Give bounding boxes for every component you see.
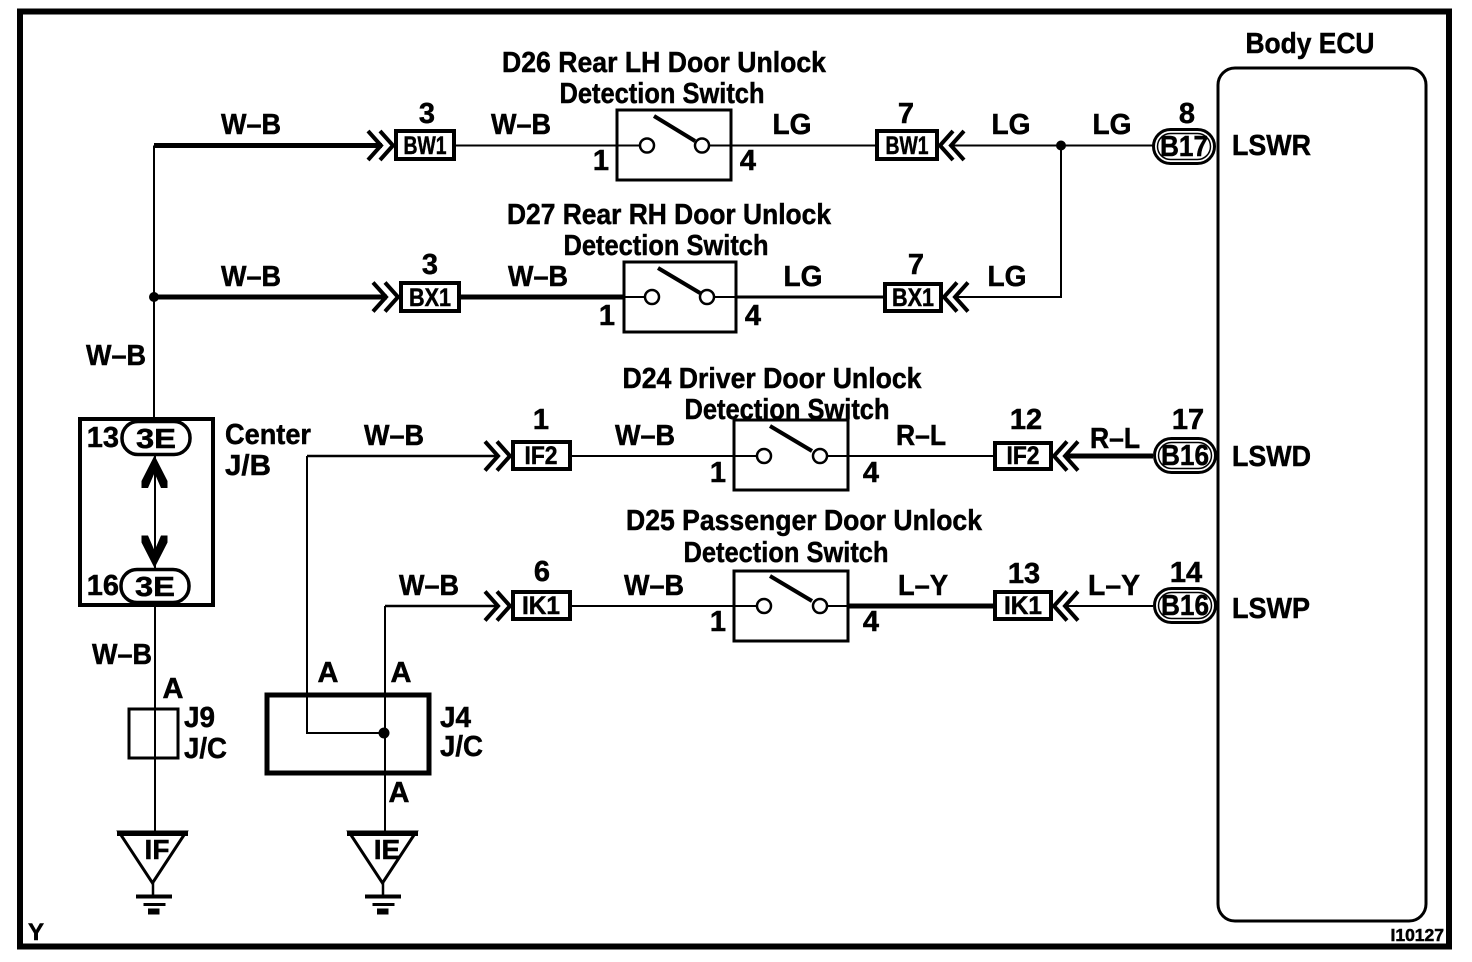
wire row3 R-L thin [848, 455, 993, 457]
svg-text:4: 4 [863, 606, 879, 638]
wire row4 L-Y bold [848, 604, 993, 609]
node junction row1 [1056, 141, 1066, 151]
svg-text:D24 Driver Door Unlock: D24 Driver Door Unlock [623, 363, 923, 395]
arrow chevrons out of IK1 right [1054, 592, 1078, 621]
junction connector J4 J/C [267, 695, 429, 773]
connector 3E top [122, 422, 190, 455]
wire row2 LG medium [736, 296, 883, 299]
connector B16 row3 [1155, 439, 1216, 473]
svg-text:W–B: W–B [624, 570, 684, 602]
arrow chevrons into IK1 [485, 592, 510, 621]
node junction row2 left [149, 292, 159, 302]
wire row2 W-B bold mid [461, 295, 624, 300]
connector BW1 left [396, 131, 454, 160]
svg-text:BX1: BX1 [892, 284, 934, 312]
svg-text:13: 13 [87, 422, 119, 454]
svg-text:I10127: I10127 [1390, 925, 1444, 945]
svg-text:J/C: J/C [184, 733, 227, 765]
connector IK1 right [995, 592, 1051, 620]
svg-text:LG: LG [988, 261, 1027, 293]
svg-text:LG: LG [1093, 109, 1132, 141]
wire trunk left vertical [153, 146, 155, 420]
arrow chevrons out of BW1 right [940, 131, 964, 160]
wire row3 W-B [307, 455, 499, 458]
svg-text:J/C: J/C [440, 731, 483, 763]
svg-text:W–B: W–B [92, 639, 152, 671]
svg-text:W–B: W–B [221, 109, 281, 141]
svg-text:3: 3 [422, 249, 438, 281]
arrow chevrons out of BX1 right [944, 283, 968, 312]
junction block Center J/B [80, 419, 213, 605]
arrow chevrons into IF2 [485, 442, 510, 471]
svg-text:LSWP: LSWP [1232, 593, 1310, 625]
svg-text:BW1: BW1 [886, 132, 929, 160]
svg-text:1: 1 [710, 457, 726, 489]
svg-text:Detection Switch: Detection Switch [560, 78, 765, 110]
svg-text:LSWR: LSWR [1232, 130, 1311, 162]
arrow chevrons out of IF2 right [1054, 442, 1078, 471]
svg-text:4: 4 [863, 457, 879, 489]
svg-text:A: A [318, 657, 339, 689]
svg-text:BX1: BX1 [409, 284, 451, 312]
svg-text:LG: LG [992, 109, 1031, 141]
wire row3 drop from corner [307, 456, 384, 733]
svg-text:12: 12 [1010, 404, 1042, 436]
wire row1 LG thin [731, 145, 875, 147]
svg-text:14: 14 [1170, 557, 1202, 589]
wire row2 W-B bold [154, 295, 387, 300]
wire row4 L-Y thin [1066, 605, 1153, 607]
svg-text:A: A [391, 657, 412, 689]
wire trunk below J/B [154, 605, 156, 832]
connector IK1 left [513, 592, 570, 620]
svg-text:Body ECU: Body ECU [1246, 28, 1375, 60]
node junction J4 [379, 728, 390, 739]
svg-text:IK1: IK1 [522, 592, 560, 620]
arrow chevrons into BW1 [368, 131, 393, 160]
svg-text:4: 4 [740, 145, 756, 177]
switch D24 [734, 420, 848, 490]
connector BX1 right [885, 284, 941, 312]
svg-text:1: 1 [533, 404, 549, 436]
svg-text:D27 Rear RH Door Unlock: D27 Rear RH Door Unlock [507, 199, 832, 231]
svg-text:Detection Switch: Detection Switch [684, 537, 889, 569]
wire riser LG [1060, 146, 1062, 299]
svg-text:16: 16 [87, 570, 119, 602]
svg-text:6: 6 [534, 556, 550, 588]
connector B16 row4 [1155, 589, 1216, 623]
arrow down in J/B [142, 536, 168, 569]
connector B17 [1154, 130, 1215, 164]
svg-text:Detection Switch: Detection Switch [564, 230, 769, 262]
svg-text:13: 13 [1008, 558, 1040, 590]
wire row2 LG to riser [956, 296, 1062, 298]
svg-text:IF2: IF2 [1007, 442, 1040, 470]
connector 3E bottom [121, 570, 189, 603]
svg-text:LSWD: LSWD [1232, 441, 1311, 473]
svg-text:B17: B17 [1160, 131, 1208, 163]
wire row4 W-B mid [572, 605, 734, 607]
switch D27 [624, 262, 736, 332]
Body ECU U1 box [1218, 68, 1426, 921]
wire row3 R-L bold [1066, 454, 1153, 459]
switch D26 [617, 110, 731, 180]
svg-text:R–L: R–L [896, 420, 946, 452]
svg-text:7: 7 [898, 98, 914, 130]
arrow up in J/B [142, 456, 168, 489]
svg-text:LG: LG [784, 261, 823, 293]
svg-text:LG: LG [773, 109, 812, 141]
svg-text:3E: 3E [135, 571, 175, 602]
svg-text:L–Y: L–Y [1088, 570, 1140, 602]
svg-text:1: 1 [599, 300, 615, 332]
svg-text:4: 4 [745, 300, 761, 332]
svg-text:B16: B16 [1161, 590, 1209, 622]
wire row1 LG to B17 [952, 145, 1153, 147]
svg-text:IF2: IF2 [525, 442, 558, 470]
svg-text:Y: Y [28, 919, 44, 946]
svg-text:D26 Rear LH Door Unlock: D26 Rear LH Door Unlock [502, 47, 827, 79]
connector BW1 right [877, 131, 937, 160]
svg-text:IF: IF [145, 834, 170, 865]
switch D25 [734, 571, 848, 641]
svg-text:A: A [163, 673, 184, 705]
svg-text:W–B: W–B [221, 261, 281, 293]
svg-text:1: 1 [593, 145, 609, 177]
svg-text:D25 Passenger Door Unlock: D25 Passenger Door Unlock [626, 505, 983, 537]
svg-text:7: 7 [908, 249, 924, 281]
svg-text:W–B: W–B [508, 261, 568, 293]
wire row1 W-B bold [154, 143, 382, 148]
ground IF [117, 832, 188, 912]
wire row3 W-B mid [572, 455, 734, 457]
svg-text:1: 1 [710, 606, 726, 638]
svg-text:W–B: W–B [86, 340, 146, 372]
svg-text:W–B: W–B [399, 570, 459, 602]
svg-text:3E: 3E [136, 423, 176, 454]
svg-text:17: 17 [1172, 404, 1204, 436]
wire row4 drop [384, 606, 386, 832]
svg-text:L–Y: L–Y [898, 570, 948, 602]
svg-text:W–B: W–B [491, 109, 551, 141]
junction connector J9 J/C [129, 709, 178, 758]
svg-text:BW1: BW1 [404, 132, 447, 160]
svg-text:W–B: W–B [364, 420, 424, 452]
svg-text:R–L: R–L [1090, 423, 1140, 455]
svg-text:J4: J4 [440, 702, 471, 734]
connector BX1 left [401, 283, 459, 312]
wire row1 W-B thin [456, 145, 617, 147]
svg-text:J9: J9 [184, 702, 215, 734]
svg-text:IK1: IK1 [1004, 592, 1042, 620]
svg-text:A: A [389, 777, 410, 809]
arrow chevrons into BX1 [373, 283, 398, 312]
svg-text:J/B: J/B [225, 450, 271, 482]
svg-text:W–B: W–B [615, 420, 675, 452]
svg-text:IE: IE [374, 834, 400, 865]
svg-text:Center: Center [225, 419, 311, 451]
svg-text:8: 8 [1179, 98, 1195, 130]
ground IE [347, 832, 418, 912]
connector IF2 left [513, 442, 570, 470]
svg-text:B16: B16 [1161, 440, 1209, 472]
svg-text:3: 3 [419, 98, 435, 130]
wire row4 W-B [385, 605, 499, 608]
connector IF2 right [995, 442, 1051, 470]
